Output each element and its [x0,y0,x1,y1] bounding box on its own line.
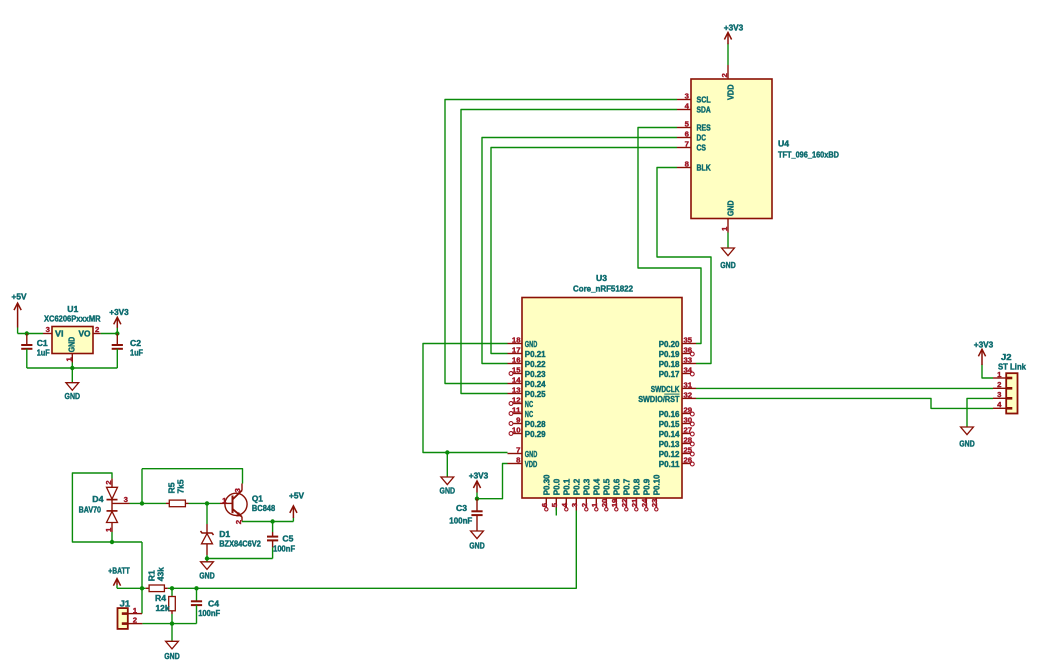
U3 pin 30 P0.15 right [682,423,691,425]
svg-text:2: 2 [133,615,137,624]
wire BLK net U4 pin8 to U3 P0.18 [657,168,711,364]
U3 pin 14 P0.24 left [508,383,523,385]
junction rail x142 [140,586,144,590]
U4 pin 5 RES [677,127,691,129]
U3 pin 10 P0.29 left [513,433,522,435]
capacitor C1 1uF [26,334,28,346]
svg-text:12k: 12k [156,603,170,613]
svg-text:NC: NC [525,409,533,419]
U3 pin 2 P0.3 bottom [585,498,587,508]
svg-text:33: 33 [684,356,693,365]
svg-text:1: 1 [720,227,729,231]
U3 pin 23 P0.10 bottom [655,498,657,508]
wire +5V to U1 VI [18,333,43,335]
svg-text:J2: J2 [1001,352,1012,362]
IC U1 XC6206PxxxMR body [52,327,93,354]
svg-text:1: 1 [590,503,599,507]
wire SWDCLK U3 pin31 to J2 pin2 [696,387,993,389]
svg-text:P0.18: P0.18 [659,359,680,369]
connector J2 ST Link body [1006,373,1017,413]
svg-text:P0.17: P0.17 [659,369,680,379]
U3 pin 33 P0.18 right [682,363,696,365]
svg-text:17: 17 [512,346,521,355]
wire Q1 emitter to +5V [242,521,293,523]
U4 pin 4 SDA [677,109,691,111]
ground below D1 [201,562,214,570]
svg-text:28: 28 [684,436,693,445]
svg-text:2: 2 [720,73,729,77]
svg-text:1: 1 [133,606,137,615]
svg-text:P0.15: P0.15 [659,419,680,429]
svg-text:P0.4: P0.4 [592,479,602,496]
capacitor C5 100nF [272,522,274,533]
J2 pin 2 [993,387,1006,389]
svg-text:14: 14 [512,376,521,385]
U3 pin 26 P0.11 right [682,463,691,465]
svg-text:GND: GND [66,337,76,353]
svg-text:19: 19 [610,499,619,508]
wire D4 anode2 loop [72,473,142,542]
wire loop to J1 vertical [141,542,143,614]
svg-text:15: 15 [512,366,521,375]
J1 pin 1 [128,613,142,615]
svg-text:1: 1 [222,496,226,505]
junction +3V3 C3 [475,497,479,501]
svg-text:SWDIO/RST: SWDIO/RST [638,394,680,404]
svg-text:8: 8 [685,160,689,169]
power +3V3 at J2 [981,349,983,365]
U3 pin 9 P0.28 left [513,423,522,425]
J1 pin 2 [128,623,143,625]
junction C1 top [25,331,29,335]
svg-text:2: 2 [95,325,99,334]
svg-text:23: 23 [650,499,659,508]
diode D1 BZX84C6V2 zener [206,524,208,533]
J2 pin 4 [993,407,1006,409]
svg-text:VO: VO [79,329,91,339]
svg-text:SDA: SDA [697,105,711,115]
svg-text:P0.11: P0.11 [659,459,680,469]
transistor Q1 BC848 [225,493,247,515]
svg-text:VI: VI [55,329,64,339]
wire C5 bottom to D1 anode [207,558,273,560]
wire base node up to collector top [141,469,143,504]
svg-text:GND: GND [726,201,736,217]
wire GND drop [446,453,448,478]
IC U4 TFT_096_160xBD body [691,79,772,219]
wire +3V3 to U3 VDD pin8 [477,464,508,499]
svg-text:+5V: +5V [289,490,304,500]
svg-text:J1: J1 [120,598,131,608]
svg-text:34: 34 [684,366,693,375]
svg-text:20: 20 [600,499,609,508]
svg-text:+3V3: +3V3 [724,23,744,33]
svg-text:3: 3 [46,325,50,334]
svg-text:P0.30: P0.30 [542,474,552,495]
svg-text:P0.20: P0.20 [659,339,680,349]
wire U4 VDD to +3V3 [727,44,729,66]
svg-text:P0.0: P0.0 [552,479,562,496]
U3 pin 6 P0.30 bottom [545,498,547,508]
svg-text:GND: GND [164,651,180,661]
svg-text:SCL: SCL [697,95,711,105]
resistor R5 7k5 [166,502,169,504]
wire stub on U3 P0.0 [555,508,557,516]
svg-text:7k5: 7k5 [175,479,185,493]
U3 pin 32 SWDIO/RST right [682,397,696,399]
svg-text:24: 24 [640,498,649,507]
svg-text:P0.8: P0.8 [632,479,642,496]
capacitor C2 1uF [116,334,118,346]
svg-text:P0.12: P0.12 [659,449,680,459]
wire D4 pin3 to R5 [130,502,167,504]
wire J1 pin2 rail to C4 bottom [142,623,196,625]
U1 pin 3 VI [43,333,52,335]
svg-text:9: 9 [516,416,520,425]
svg-text:ST Link: ST Link [998,362,1026,372]
svg-text:2: 2 [997,380,1001,389]
U3 pin 11 NC left [513,413,522,415]
svg-text:C1: C1 [37,338,48,348]
U3 pin 20 P0.5 bottom [605,498,607,508]
svg-text:12: 12 [512,396,521,405]
svg-text:6: 6 [540,503,549,507]
junction base node [140,501,144,505]
junction D4 anode1 [110,540,114,544]
wire U3 pin18 GND to pin7 GND [423,344,508,453]
wire R5 to Q1 base [189,502,221,504]
wire RES net U4 pin5 to U3 P0.20 [638,128,701,344]
svg-text:31: 31 [684,380,693,389]
svg-text:U4: U4 [778,139,789,149]
ground below C3 [471,531,484,539]
svg-text:3: 3 [570,503,579,507]
svg-text:P0.9: P0.9 [642,479,652,496]
svg-text:R4: R4 [155,593,166,603]
U3 pin 13 P0.25 left [508,393,523,395]
wire U1 VO to +3V3 [101,333,118,335]
svg-text:P0.13: P0.13 [659,439,680,449]
svg-text:1: 1 [104,528,113,532]
svg-text:2: 2 [580,503,589,507]
svg-text:VDD: VDD [726,85,736,101]
U3 pin 21 P0.8 bottom [635,498,637,508]
diode D4 BAV70 [111,479,113,488]
svg-text:25: 25 [684,446,693,455]
wire U1 GND to rail [71,363,73,369]
svg-text:+3V3: +3V3 [469,470,489,480]
resistor R4 1.2k vertical [171,588,173,596]
svg-text:P0.1: P0.1 [562,479,572,496]
svg-text:+3V3: +3V3 [974,339,994,349]
U3 pin 7 GND left [508,453,523,455]
svg-text:GND: GND [199,571,215,581]
wire SWDIO/RST U3 pin32 to J2 pin4 [696,398,993,408]
wire J2 pin3 to ground [967,398,993,427]
svg-text:5: 5 [685,120,689,129]
U4 pin 7 CS [677,147,691,149]
wire long run to U3 P0.2 [197,511,577,589]
svg-text:P0.2: P0.2 [572,479,582,496]
wire DC net U4 pin6 to U3 P0.22 [482,138,677,364]
svg-text:100nF: 100nF [449,516,472,526]
svg-text:6: 6 [685,130,689,139]
svg-text:SWDCLK: SWDCLK [651,384,680,394]
svg-text:43k: 43k [156,567,166,581]
U3 pin 28 P0.13 right [682,443,691,445]
wire D1 anode down [206,555,208,559]
U3 pin 4 P0.1 bottom [565,498,567,508]
svg-text:P0.25: P0.25 [525,389,546,399]
svg-text:2: 2 [104,481,113,485]
svg-text:P0.3: P0.3 [582,479,592,496]
U3 pin 5 P0.0 bottom [555,498,557,511]
svg-text:3: 3 [124,495,128,504]
IC U3 Core_nRF51822 body [522,298,682,499]
ground below U1 [66,383,79,391]
svg-text:GND: GND [469,540,485,550]
svg-text:5: 5 [550,503,559,507]
svg-text:GND: GND [959,439,975,449]
wire ground rail U1 [27,367,118,369]
svg-text:VDD: VDD [525,459,538,469]
junction C4 top [194,586,198,590]
svg-text:2: 2 [234,520,243,524]
ground below U3 left [441,477,454,485]
svg-text:U1: U1 [67,304,78,314]
U3 pin 1 P0.4 bottom [595,498,597,508]
svg-text:P0.5: P0.5 [602,479,612,496]
svg-text:7: 7 [685,140,689,149]
svg-text:DC: DC [697,133,707,143]
U3 pin 25 P0.12 right [682,453,691,455]
svg-text:8: 8 [516,456,520,465]
svg-text:CS: CS [697,143,707,153]
svg-text:32: 32 [684,390,693,399]
wire U4 GND pin to ground [727,233,729,249]
svg-text:BAV70: BAV70 [79,504,102,514]
junction GND net [445,450,449,454]
svg-text:3: 3 [997,390,1001,399]
junction U1 gnd rail [70,366,74,370]
svg-text:TFT_096_160xBD: TFT_096_160xBD [778,150,839,160]
junction gnd drop [170,621,174,625]
wire node to D1 [206,503,208,524]
U3 pin 36 P0.19 right [682,353,691,355]
svg-text:XC6206PxxxMR: XC6206PxxxMR [44,314,101,324]
svg-text:30: 30 [684,416,693,425]
ground below U4 [722,248,735,256]
svg-text:22: 22 [620,499,629,508]
svg-text:29: 29 [684,406,693,415]
svg-text:GND: GND [525,339,538,349]
U4 pin 6 DC [677,137,691,139]
U4 pin 3 SCL [677,99,691,101]
svg-text:3: 3 [233,488,242,492]
svg-text:P0.21: P0.21 [525,349,546,359]
U3 pin 35 P0.20 right [682,343,696,345]
power +3V3 at U4 [727,33,729,45]
svg-text:18: 18 [512,336,521,345]
junction D1 top [205,501,209,505]
U3 pin 12 NC left [513,403,522,405]
wire SDA net U4 pin4 to U3 P0.25 [461,110,677,394]
svg-text:GND: GND [440,486,456,496]
svg-text:RES: RES [697,123,711,133]
power +5V at Q1 [292,518,294,522]
svg-text:11: 11 [512,406,521,415]
svg-text:100nF: 100nF [198,608,220,618]
svg-text:3: 3 [685,92,689,101]
svg-text:P0.24: P0.24 [525,379,546,389]
power +3V3 at U1 [116,328,118,334]
junction C2 top [115,331,119,335]
svg-text:P0.14: P0.14 [659,429,680,439]
wire R1 to C4 node [168,587,197,589]
ground below J2 [961,427,974,435]
svg-text:26: 26 [684,456,693,465]
svg-text:P0.16: P0.16 [659,409,680,419]
svg-text:C3: C3 [456,503,467,513]
svg-text:P0.19: P0.19 [659,349,680,359]
U3 pin 24 P0.9 bottom [645,498,647,508]
svg-text:100nF: 100nF [273,543,295,553]
svg-text:+BATT: +BATT [108,565,130,575]
svg-text:P0.7: P0.7 [622,479,632,496]
svg-text:10: 10 [512,426,521,435]
svg-text:+3V3: +3V3 [109,307,129,317]
svg-text:BC848: BC848 [252,503,275,513]
U3 pin 29 P0.16 right [682,413,691,415]
svg-text:P0.22: P0.22 [525,359,546,369]
svg-text:27: 27 [684,426,693,435]
U3 pin 31 SWDCLK right [682,387,696,389]
U3 pin 15 P0.23 left [513,373,522,375]
U4 pin 1 GND bottom [727,219,729,233]
wire D4 pin1 to loop bottom [111,532,113,542]
svg-text:1: 1 [997,370,1001,379]
wire +BATT rail left [117,587,146,589]
svg-text:NC: NC [525,399,533,409]
ground below J1 R4 [166,641,179,649]
junction D1 anode / C5 bottom [205,556,209,560]
U3 pin 34 P0.17 right [682,373,691,375]
U3 pin 3 P0.2 bottom [575,498,577,511]
J2 pin 3 [993,397,1006,399]
U3 pin 19 P0.6 bottom [615,498,617,508]
svg-text:P0.23: P0.23 [525,369,546,379]
resistor R1 43k [146,587,149,589]
wire J2 pin1 to +3V3 [982,365,993,379]
J2 pin 1 [993,377,1006,379]
U3 pin 22 P0.7 bottom [625,498,627,508]
svg-text:35: 35 [684,336,693,345]
U4 pin 2 VDD top [727,65,729,79]
svg-text:1: 1 [64,357,73,361]
wire SCL net U4 pin3 to U3 P0.24 [445,100,677,384]
svg-text:36: 36 [684,346,693,355]
wire gnd drop [171,624,173,642]
junction C5 top [270,519,274,523]
svg-text:1uF: 1uF [130,347,143,357]
svg-text:C5: C5 [282,533,293,543]
svg-text:BLK: BLK [697,163,712,173]
svg-text:BZX84C6V2: BZX84C6V2 [219,538,261,548]
svg-text:C2: C2 [130,338,141,348]
U3 pin 16 P0.22 left [508,363,523,365]
svg-text:P0.6: P0.6 [612,479,622,496]
svg-text:D4: D4 [92,494,103,504]
U3 pin 17 P0.21 left [508,353,523,355]
svg-text:7: 7 [516,446,520,455]
wire top across to Q1 collector [142,469,243,484]
capacitor C3 100nF [476,499,478,512]
svg-text:+5V: +5V [12,292,27,302]
svg-text:GND: GND [525,449,538,459]
svg-text:U3: U3 [596,273,607,283]
svg-text:GND: GND [720,260,736,270]
D4 pin 3 stub [112,502,130,504]
U1 pin 2 VO [93,333,101,335]
U3 pin 18 GND left [508,343,523,345]
svg-text:P0.29: P0.29 [525,429,546,439]
U4 pin 8 BLK [677,167,691,169]
wire D1 gnd stub [206,559,208,562]
svg-text:13: 13 [512,386,521,395]
connector J1 body [118,608,128,629]
U3 pin 27 P0.14 right [682,433,691,435]
U3 pin 8 VDD left [508,463,523,465]
svg-text:Core_nRF51822: Core_nRF51822 [573,284,633,294]
wire CS net U4 pin7 to U3 P0.21 [491,148,677,354]
svg-text:1uF: 1uF [37,347,50,357]
svg-text:P0.28: P0.28 [525,419,546,429]
svg-text:P0.10: P0.10 [652,474,662,495]
U1 pin 1 GND bottom [71,354,73,363]
svg-text:GND: GND [65,391,81,401]
junction R4 top [170,586,174,590]
svg-text:21: 21 [630,499,639,508]
svg-text:16: 16 [512,356,521,365]
capacitor C4 100nF [196,588,198,601]
